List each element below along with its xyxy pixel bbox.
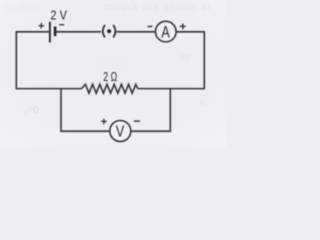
svg-text:GE: GE [180, 53, 192, 62]
battery B1 2V: long plate (+) [49, 22, 51, 43]
label: battery minus sign [59, 24, 64, 26]
wire: top-left + left side + resistor row left [16, 32, 81, 89]
faint page bleed-through artifacts [2, 2, 211, 116]
wire: ammeter to top-right corner + right side + resistor row right [138, 32, 205, 89]
wire: voltmeter bottom right + right drop [131, 89, 171, 132]
ammeter A [148, 21, 186, 42]
label: voltmeter minus sign [134, 120, 140, 122]
battery B1 2V: short plate (-) [54, 27, 57, 37]
label: battery plus sign [39, 23, 45, 29]
svg-text:V: V [116, 124, 125, 141]
svg-text:A: A [161, 23, 169, 41]
battery B1 2V with polarity labels [39, 8, 68, 43]
label: ammeter plus sign [180, 23, 186, 29]
svg-text:o.: o. [200, 97, 208, 107]
wire: key to ammeter [116, 31, 155, 33]
svg-text:2 Ω: 2 Ω [103, 69, 117, 84]
plug key K [103, 25, 116, 38]
label: ammeter minus sign [148, 26, 153, 28]
voltmeter V [101, 119, 140, 142]
svg-text:₀=0: ₀=0 [23, 105, 39, 116]
wire: battery to key [55, 31, 101, 33]
label: voltmeter plus sign [101, 119, 107, 125]
svg-text:sl-a unora: sl-a unora [2, 2, 42, 12]
circuit wiring (main loop and voltmeter branch) [16, 32, 204, 131]
svg-text:mwork are shown al: mwork are shown al [104, 2, 211, 13]
resistor R1 2 ohm zigzag [82, 84, 138, 93]
svg-text:2 V: 2 V [50, 8, 67, 23]
wire: voltmeter branch left drop + bottom left [61, 89, 110, 132]
